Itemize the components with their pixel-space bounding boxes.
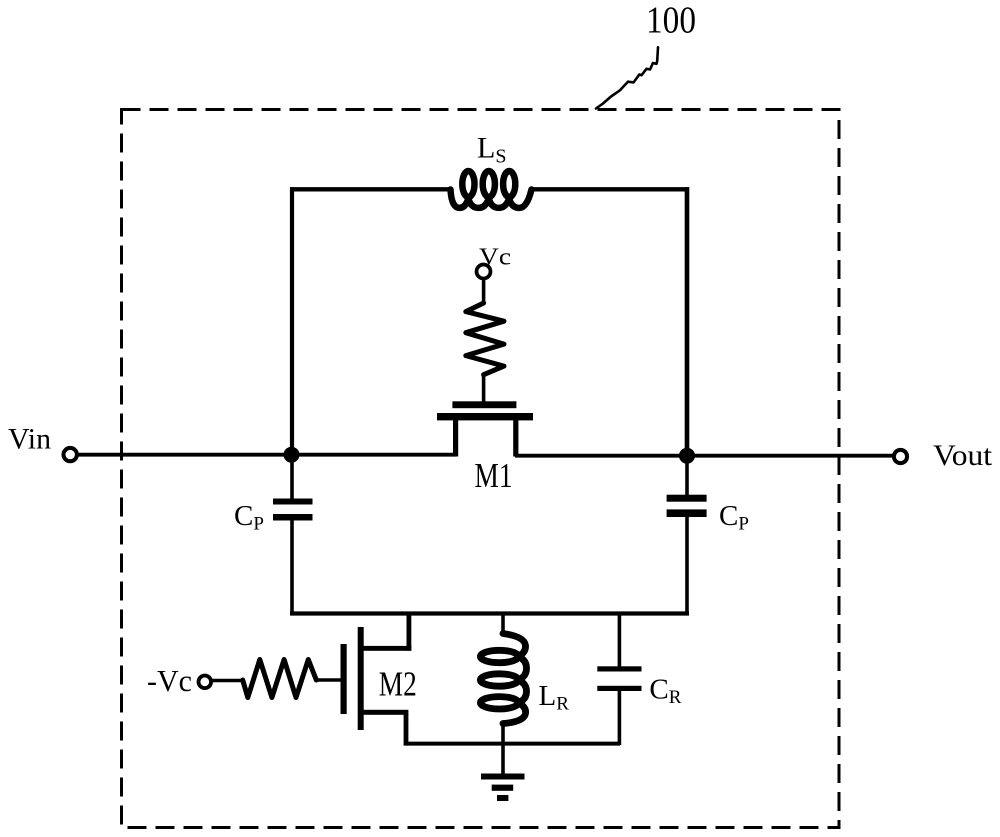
wire resistor to M1 gate [482, 374, 486, 403]
wire left vertical (top loop) [290, 187, 294, 455]
wire rail to C_R [618, 615, 622, 668]
terminal -Vc [199, 676, 212, 689]
wire rail to L_R [501, 615, 505, 635]
node input [284, 447, 300, 463]
svg-text:M2: M2 [379, 665, 417, 704]
inductor L_S [451, 171, 532, 208]
svg-text:-Vc: -Vc [147, 663, 192, 698]
wire right vertical (top loop) [685, 187, 690, 455]
wire Vin to M1 source [77, 453, 456, 457]
capacitor C_P left [273, 499, 313, 521]
wire Vc to resistor [482, 279, 486, 306]
svg-text:Vout: Vout [933, 439, 993, 472]
terminal Vc [477, 265, 491, 279]
wire resistor to M2 gate [316, 678, 342, 682]
svg-text:Vin: Vin [8, 423, 51, 456]
resistor (M2 gate bias) [243, 660, 317, 698]
transistor M1 [437, 401, 533, 456]
node output [679, 448, 695, 464]
leader squiggle [596, 47, 658, 108]
inductor L_R [480, 634, 526, 724]
wire top-left horizontal [290, 187, 451, 191]
capacitor C_P right [667, 495, 707, 517]
wire C_P right to rail [685, 517, 689, 615]
wire top-right horizontal [531, 187, 689, 191]
enclosure dashed box [122, 110, 840, 828]
svg-text:M1: M1 [475, 456, 513, 495]
terminal Vout [894, 450, 907, 463]
svg-text:100: 100 [646, 0, 696, 42]
terminal Vin [63, 448, 76, 461]
wire node to C_P right [685, 455, 689, 495]
wire node to C_P left [290, 455, 294, 500]
wire C_R to rail 2 [618, 690, 622, 745]
ground [481, 774, 525, 802]
wire C_P left to rail [290, 521, 294, 616]
resistor (Vc bias) [466, 303, 504, 375]
wire -Vc to resistor [211, 679, 244, 683]
wire bottom rail [290, 611, 689, 615]
wire M1 drain to Vout [515, 454, 893, 458]
svg-text:Vc: Vc [479, 244, 511, 270]
wire L_R to ground [501, 722, 505, 775]
wire bottom rail 2 [406, 742, 620, 746]
capacitor C_R [597, 666, 641, 691]
transistor M2 [341, 613, 412, 746]
